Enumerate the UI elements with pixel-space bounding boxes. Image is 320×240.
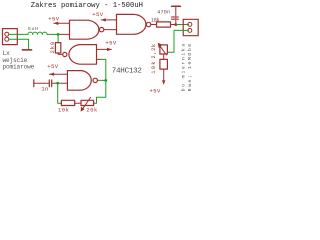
svg-text:Rwe; 10MOhm: Rwe; 10MOhm [187, 42, 193, 91]
wire node down to R1 [57, 34, 59, 42]
wire pin2 to divider [168, 30, 189, 52]
capacitor C2 470n [172, 7, 179, 25]
nand gate U1D [67, 71, 97, 91]
resistor R4 10k [160, 59, 168, 69]
node junction [174, 23, 177, 26]
wire U1A out to U1B in [104, 29, 117, 31]
svg-text:74HC132: 74HC132 [112, 68, 143, 76]
svg-text:20k: 20k [86, 108, 98, 114]
wire coil to node [47, 33, 60, 35]
svg-text:10k: 10k [58, 108, 70, 114]
wire gate4 out [98, 79, 106, 81]
svg-text:+5V: +5V [92, 11, 104, 18]
wire trimmer to R4 [163, 54, 165, 59]
svg-text:+5V: +5V [47, 63, 59, 70]
connector SV1 (output) [183, 19, 198, 35]
+5V arrow gate1 [48, 15, 69, 25]
vertical net gate4 out / gate3 in [94, 59, 106, 103]
svg-text:470n: 470n [157, 9, 170, 15]
ground top right [172, 5, 181, 7]
+5V arrow gate2 [92, 11, 116, 21]
capacitor C1 1n [34, 80, 58, 87]
ground [22, 49, 31, 51]
wire node to connector pin1 [176, 24, 189, 26]
wire pin1 to inductor [9, 33, 28, 35]
resistor R5 10k [61, 100, 74, 105]
wire to gate1 input B [61, 33, 70, 35]
svg-text:Zakres pomiarowy - 1-500uH: Zakres pomiarowy - 1-500uH [31, 2, 143, 10]
+5V arrow gate3 [97, 40, 117, 52]
svg-text:+5V: +5V [105, 40, 117, 47]
svg-text:10k: 10k [151, 60, 157, 74]
nand gate U1B [117, 14, 151, 34]
svg-text:1n: 1n [41, 86, 48, 93]
svg-text:2,2k: 2,2k [151, 43, 157, 58]
node junction [57, 33, 60, 36]
svg-text:Do miernika: Do miernika [181, 42, 187, 91]
+5V arrow gate4 [47, 63, 67, 76]
svg-text:18k: 18k [151, 17, 160, 23]
trimmer R6 20k [81, 97, 94, 111]
trimmer R3 [158, 43, 168, 55]
wire R1 to U1C output [58, 53, 63, 54]
svg-text:2k0: 2k0 [50, 41, 56, 53]
inductor L1 [28, 32, 47, 34]
wire R5 to R6 [75, 102, 81, 104]
+5V arrow down [150, 69, 166, 95]
resistor R2 10k [157, 22, 171, 27]
nand gate U1C (mirrored) [63, 45, 97, 65]
wire R2 to node [171, 24, 176, 26]
nand gate U1A [70, 20, 104, 39]
svg-text:+5V: +5V [48, 15, 60, 22]
wire gate4 inB [62, 82, 68, 84]
wire pin2 down [9, 39, 28, 49]
connector X1 (Lx input) [3, 29, 18, 45]
node junction [104, 79, 107, 82]
svg-text:5uH: 5uH [28, 26, 39, 32]
svg-text:pomiarowe: pomiarowe [3, 64, 35, 71]
wire gate3 inB to vertical net [97, 58, 102, 60]
net cap/gate4b down to resistors [58, 83, 62, 103]
resistor R1 2k0 [55, 43, 60, 53]
node junction [56, 82, 59, 85]
wire U1B out to R2 [151, 24, 157, 26]
svg-text:+5V: +5V [150, 88, 162, 95]
